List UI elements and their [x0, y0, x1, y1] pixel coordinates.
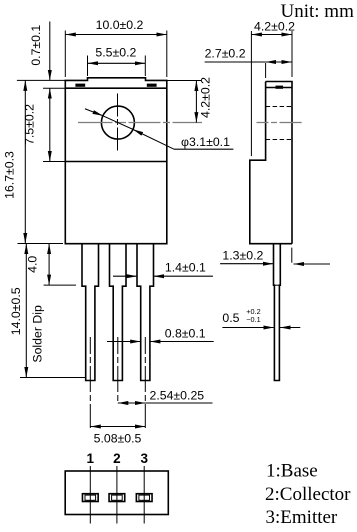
dim 4.0 — [25, 244, 76, 286]
svg-text:14.0±0.5: 14.0±0.5 — [9, 287, 23, 335]
pin 3 section — [136, 494, 152, 502]
svg-text:0.5: 0.5 — [222, 311, 239, 325]
svg-text:φ3.1±0.1: φ3.1±0.1 — [181, 135, 230, 149]
svg-text:Solder Dip: Solder Dip — [30, 305, 44, 363]
front lead 2 — [110, 244, 127, 381]
side view body — [250, 82, 292, 244]
svg-text:1.3±0.2: 1.3±0.2 — [222, 249, 263, 263]
dim 0.8 — [107, 326, 214, 341]
svg-text:2:Collector: 2:Collector — [265, 484, 351, 505]
dim 14.0 — [9, 244, 86, 378]
pin 1 center line — [89, 466, 91, 524]
svg-text:5.5±0.2: 5.5±0.2 — [95, 46, 136, 60]
svg-text:2: 2 — [113, 451, 121, 466]
dim 4.2 side — [251, 20, 295, 157]
svg-text:−0.1: −0.1 — [246, 315, 260, 324]
tab ear mark left — [75, 84, 85, 87]
bottom view outline — [65, 471, 168, 515]
tab ear mark right — [147, 84, 157, 87]
dim 16.7 — [3, 80, 64, 243]
svg-text:3: 3 — [140, 451, 148, 466]
front view shoulder line — [65, 87, 167, 89]
dim 7.5 — [23, 88, 66, 161]
svg-text:2.54±0.25: 2.54±0.25 — [150, 389, 205, 403]
svg-text:5.08±0.5: 5.08±0.5 — [94, 432, 142, 446]
svg-text:4.2±0.2: 4.2±0.2 — [199, 77, 213, 118]
svg-text:1.4±0.1: 1.4±0.1 — [165, 261, 206, 275]
pin 2 section — [109, 494, 125, 502]
dim 5.5 — [88, 46, 146, 76]
front view body outline — [65, 78, 167, 244]
side lead — [274, 244, 281, 381]
lead 2 center line — [117, 337, 119, 404]
svg-text:4.2±0.2: 4.2±0.2 — [254, 20, 295, 34]
svg-text:2.7±0.2: 2.7±0.2 — [205, 47, 246, 61]
lead 1 center line — [89, 337, 91, 428]
side lead step tick — [274, 284, 281, 286]
svg-text:16.7±0.3: 16.7±0.3 — [3, 151, 17, 199]
svg-text:0.8±0.1: 0.8±0.1 — [165, 326, 206, 340]
dim 10.0 — [65, 18, 167, 77]
svg-text:10.0±0.2: 10.0±0.2 — [96, 18, 144, 32]
dim 1.4 — [113, 261, 213, 277]
svg-text:7.5±0.2: 7.5±0.2 — [23, 104, 37, 145]
dim 4.2 front — [167, 77, 213, 123]
lead 3 center line — [144, 337, 146, 428]
hole horizontal center line — [78, 122, 202, 124]
pin 1 section — [82, 494, 98, 502]
dim hole dia 3.1 — [85, 109, 234, 150]
svg-text:1:Base: 1:Base — [266, 460, 318, 481]
front lead 3 — [137, 244, 154, 381]
hole vertical center line — [117, 94, 119, 151]
side ear mark — [276, 86, 284, 89]
side hole hidden edge bottom — [266, 139, 292, 141]
svg-text:1: 1 — [87, 451, 95, 466]
side hole center line — [257, 122, 302, 124]
pin 3 center line — [143, 466, 145, 524]
dim 1.3 — [220, 248, 330, 264]
side hole hidden edge top — [266, 106, 292, 108]
pin 2 center line — [116, 466, 118, 524]
side view shoulder line — [266, 87, 292, 89]
dim 0.5 — [222, 307, 300, 328]
dim 0.7 — [17, 22, 65, 89]
dim 2.54 — [118, 389, 213, 404]
dim 5.08 — [90, 427, 145, 446]
svg-text:3:Emitter: 3:Emitter — [266, 507, 338, 528]
svg-text:4.0: 4.0 — [25, 256, 39, 273]
mounting hole — [101, 106, 134, 139]
front view mid line — [65, 161, 167, 163]
dim 2.7 — [205, 47, 292, 79]
front lead 1 — [82, 244, 99, 381]
svg-text:0.7±0.1: 0.7±0.1 — [29, 25, 43, 66]
